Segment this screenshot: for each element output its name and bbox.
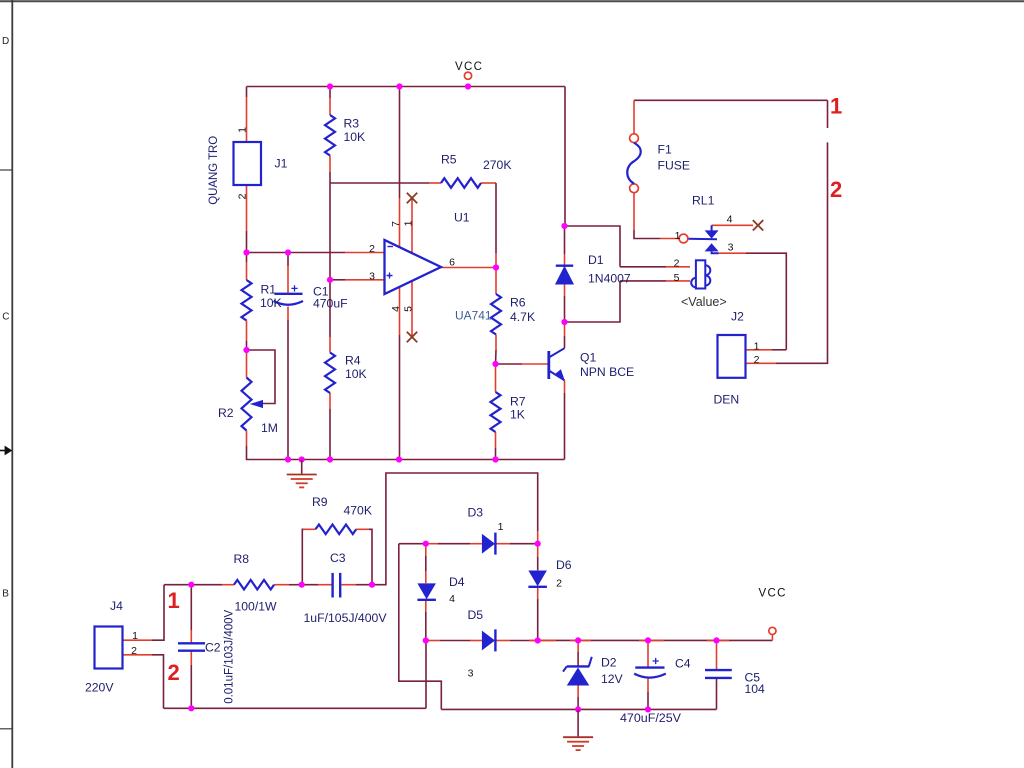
wire D1 anode pin — [564, 284, 566, 296]
svg-text:C3: C3 — [330, 551, 346, 565]
connector J4 — [95, 627, 123, 669]
wire D3 left pin — [470, 543, 482, 545]
wire VCC top rail — [247, 86, 566, 88]
wire C2 to bottom rail — [190, 665, 192, 708]
svg-text:1K: 1K — [510, 408, 525, 422]
wire node to R5 — [330, 182, 429, 184]
wire R3 top stub — [329, 87, 331, 99]
wire R6 bottom pin — [495, 335, 497, 351]
wire D4 column — [425, 556, 427, 571]
svg-text:B: B — [2, 589, 9, 600]
svg-text:1: 1 — [754, 340, 760, 352]
wire R4 top pin — [329, 337, 331, 353]
wire net1 segment — [827, 100, 829, 128]
connector J2 — [718, 335, 746, 378]
svg-text:1: 1 — [498, 521, 504, 533]
svg-text:12V: 12V — [601, 672, 624, 686]
junction C2 top — [188, 582, 194, 588]
connector J1 — [234, 142, 262, 185]
wire C4 top pin — [647, 640, 649, 667]
junction J1-R1-U1 node — [243, 249, 249, 255]
svg-text:5: 5 — [674, 272, 680, 284]
junction VCC rail — [465, 83, 471, 89]
wire R6 top pin — [495, 268, 497, 295]
wire C3 left pin — [318, 584, 332, 586]
svg-text:7: 7 — [390, 221, 402, 227]
wire R8 right pin — [274, 584, 289, 586]
wire R4 to bottom rail — [329, 409, 331, 460]
svg-text:1: 1 — [168, 588, 180, 613]
wire C1 bottom pin — [287, 307, 289, 321]
junction bridge node D — [535, 637, 541, 643]
diode D1 — [556, 266, 573, 284]
wire D1 anode to collector red — [564, 322, 566, 336]
wire U1 pin4 red — [399, 287, 401, 335]
zener diode D2 — [563, 657, 592, 686]
diode D3 — [482, 533, 496, 555]
wire bridge bottom mid — [440, 640, 470, 642]
resistor R6 — [491, 294, 501, 335]
wire relay pin3 red — [719, 252, 746, 254]
wire C1 top pin — [287, 266, 289, 293]
svg-text:2: 2 — [131, 645, 137, 657]
wire D2 to gnd rail — [577, 697, 579, 709]
wire inverting input horizontal — [247, 252, 346, 254]
wire D1 node to cathode — [564, 226, 566, 254]
svg-text:6: 6 — [449, 256, 455, 268]
wire U1 pin6 output — [441, 267, 496, 269]
svg-text:1: 1 — [132, 630, 138, 642]
wire J1 to node inverting — [246, 231, 248, 253]
svg-text:FUSE: FUSE — [658, 159, 691, 173]
svg-text:2: 2 — [674, 257, 680, 269]
fuse F1 bottom terminal — [630, 184, 639, 193]
wire C1 top stub — [287, 253, 289, 267]
svg-text:4: 4 — [390, 306, 402, 312]
junction C4 vcc rail — [645, 637, 651, 643]
wire relay coil pin2 red — [666, 266, 690, 268]
wire gnd step — [399, 544, 442, 710]
frame top border — [0, 0, 1024, 2]
wire U1 pin3 horizontal — [330, 279, 345, 281]
wire J4 pin1 to corner — [152, 585, 164, 641]
wire fuse top pin — [633, 100, 635, 133]
wire J2 pin2 to net2 — [776, 142, 828, 363]
relay RL1 coil — [691, 260, 710, 288]
wire R3 bottom pin — [329, 156, 331, 173]
wire R6 to base node — [495, 350, 498, 364]
wire base node to Q1 — [496, 363, 523, 365]
wire vcc rail red segment d — [707, 639, 729, 641]
op-amp U1 — [385, 240, 442, 294]
svg-text:C4: C4 — [675, 657, 691, 671]
wire J1 pin2 — [246, 185, 248, 231]
wire C3 to corner — [356, 473, 538, 585]
svg-text:0.01uF/103J/400V: 0.01uF/103J/400V — [221, 609, 235, 704]
junction R7 bottom rail — [492, 456, 498, 462]
wire D4 to node — [425, 612, 427, 641]
svg-text:1M: 1M — [261, 421, 278, 435]
capacitor C4 — [634, 658, 666, 678]
wire pin6 node upper stub — [495, 253, 497, 268]
junction bridge node C — [423, 637, 429, 643]
wire fuse to relay pin1 — [634, 230, 660, 239]
svg-text:2: 2 — [830, 177, 842, 202]
svg-text:10K: 10K — [260, 296, 282, 310]
svg-text:470uF: 470uF — [313, 296, 348, 310]
svg-text:VCC: VCC — [759, 588, 787, 600]
svg-text:3: 3 — [468, 667, 474, 679]
junction R4 bottom rail — [327, 456, 333, 462]
wire relay coil pin5 red — [666, 280, 690, 282]
wire C2 bottom pin — [190, 651, 192, 665]
svg-text:D4: D4 — [449, 575, 465, 589]
junction D2 vcc rail — [575, 637, 581, 643]
capacitor C5 — [705, 670, 732, 678]
wire J2 pin1 maroon — [772, 349, 786, 351]
wire U1 pin1 red — [411, 198, 413, 253]
wire R7 to bottom rail — [495, 448, 497, 460]
diode D6 — [528, 571, 547, 587]
junction D1 anode node — [561, 319, 567, 325]
svg-text:1: 1 — [402, 220, 414, 226]
junction C4 gnd rail — [645, 706, 651, 712]
wire emitter to bottom rail — [564, 393, 566, 460]
wire C5 top pin — [716, 640, 718, 670]
svg-text:2: 2 — [556, 578, 562, 590]
wire U1 pin7 from rail — [399, 87, 401, 199]
ground top circuit — [287, 460, 317, 488]
wire D3 to node B — [510, 543, 538, 545]
resistor R7 — [491, 392, 501, 432]
svg-text:C2: C2 — [205, 641, 221, 655]
svg-text:1: 1 — [236, 127, 248, 133]
junction D2 gnd rail — [575, 706, 581, 712]
wire R7 top pin — [495, 364, 497, 392]
wire J1 pin1 stub maroon — [246, 87, 248, 98]
svg-text:VCC: VCC — [455, 61, 483, 73]
wire VCC2 stem — [771, 635, 773, 641]
svg-text:R1: R1 — [261, 283, 277, 297]
junction Q1 base node — [492, 361, 498, 367]
wire D5 to node D — [510, 640, 538, 642]
svg-text:J1: J1 — [275, 157, 288, 171]
svg-text:R3: R3 — [344, 117, 360, 131]
wire D2 top stub — [577, 652, 579, 666]
resistor R3 — [325, 115, 335, 156]
svg-text:R8: R8 — [234, 552, 250, 566]
svg-text:NPN BCE: NPN BCE — [580, 365, 634, 379]
svg-text:D: D — [2, 36, 9, 47]
diode D5 — [482, 629, 496, 651]
svg-text:R6: R6 — [510, 296, 526, 310]
junction C2 bottom — [188, 705, 194, 711]
frame left border — [11, 0, 13, 768]
junction gnd stem rail — [299, 456, 305, 462]
wire D3 right pin — [495, 543, 510, 545]
relay RL1 — [688, 225, 719, 253]
wire R9 left leg — [302, 529, 304, 584]
svg-text:270K: 270K — [483, 158, 511, 172]
svg-text:R4: R4 — [345, 354, 361, 368]
svg-text:D6: D6 — [556, 558, 572, 572]
wire R3 to node — [329, 172, 331, 183]
wire relay pin1 red — [660, 238, 679, 240]
wire D5 left pin — [470, 640, 482, 642]
wire C5 bottom — [716, 678, 718, 710]
svg-text:D1: D1 — [588, 253, 604, 267]
svg-text:U1: U1 — [454, 210, 470, 224]
svg-text:3: 3 — [369, 270, 375, 282]
wire D6 top stub red — [537, 544, 539, 557]
svg-text:3: 3 — [728, 242, 734, 254]
svg-text:470uF/25V: 470uF/25V — [620, 711, 682, 725]
wire pin3 node column — [329, 280, 331, 337]
no-connect U1 pin5 — [407, 332, 417, 342]
svg-text:10K: 10K — [344, 130, 366, 144]
wire collector column — [564, 336, 566, 348]
wire J2 pin1 red — [746, 349, 773, 351]
wire J1 pin1 — [246, 97, 248, 142]
wire C4 to gnd rail — [647, 692, 649, 709]
wire J2 pin2 red — [746, 362, 777, 364]
wire D5 right pin — [495, 640, 510, 642]
wire fuse top rail — [634, 99, 828, 101]
potentiometer R2 — [242, 378, 252, 431]
frame tick upper — [0, 169, 12, 171]
wire R9 left pin — [303, 528, 316, 530]
junction R3 top rail — [327, 83, 333, 89]
no-connect relay pin4 — [753, 220, 763, 230]
junction C5 vcc rail — [713, 637, 719, 643]
svg-text:<Value>: <Value> — [681, 295, 727, 309]
svg-text:100/1W: 100/1W — [235, 600, 277, 614]
junction C1 bottom rail — [285, 456, 291, 462]
wire J4 pin1 red — [123, 639, 153, 641]
wire D2 top pin — [577, 640, 579, 652]
wire bridge B top stub red — [537, 531, 539, 544]
svg-text:QUANG TRO: QUANG TRO — [206, 136, 220, 205]
junction bridge node A — [423, 541, 429, 547]
fuse F1 top terminal — [630, 134, 639, 143]
junction C1 top — [285, 249, 291, 255]
svg-text:2: 2 — [369, 243, 375, 255]
wire R4 bottom pin — [329, 393, 331, 409]
wire ac2 riser — [425, 641, 427, 709]
svg-text:DEN: DEN — [714, 393, 740, 407]
wire C2 top pin — [190, 630, 192, 643]
wire U1 pin5 red — [411, 281, 413, 337]
svg-text:F1: F1 — [658, 143, 672, 157]
svg-text:R7: R7 — [510, 395, 526, 409]
wire J4 pin2 red — [123, 654, 153, 656]
svg-text:2: 2 — [168, 660, 180, 685]
junction R9 right — [369, 582, 375, 588]
no-connect U1 pin1 — [407, 193, 417, 203]
svg-text:2: 2 — [754, 354, 760, 366]
wire D1 loop bottom — [565, 281, 621, 322]
svg-text:Q1: Q1 — [580, 351, 596, 365]
wire ac2 bottom rail — [164, 707, 427, 709]
svg-text:C: C — [2, 312, 9, 323]
svg-text:4: 4 — [727, 213, 733, 225]
svg-text:1: 1 — [830, 94, 842, 119]
wire R5 right pin — [481, 182, 496, 184]
junction bridge node B — [535, 541, 541, 547]
wire R1 top pin — [246, 262, 248, 280]
svg-text:R5: R5 — [441, 153, 457, 167]
wire R5 left pin — [429, 182, 441, 184]
transistor Q1 — [549, 348, 565, 381]
wire R8 to R9 node — [289, 584, 302, 586]
wire R8 left pin — [222, 584, 234, 586]
svg-text:RL1: RL1 — [692, 194, 715, 208]
junction U1 pin4 rail — [396, 456, 402, 462]
junction U1 pin3 node — [327, 277, 333, 283]
wire R3R4 column — [329, 183, 331, 280]
wire U1 pin4 to rail — [399, 335, 401, 460]
wire relay coil pin2 — [620, 266, 666, 268]
capacitor C1 — [274, 285, 304, 304]
capacitor C3 — [333, 573, 341, 598]
diode D4 — [417, 583, 436, 599]
junction U1 output — [493, 264, 499, 270]
wire D2 bottom pin — [577, 686, 579, 698]
wire gnd rail bottom — [441, 708, 716, 710]
wire C3 right pin — [342, 584, 357, 586]
svg-text:1uF/105J/400V: 1uF/105J/400V — [304, 611, 388, 625]
wire R2 wiper loop — [247, 350, 276, 404]
wire R1 to R2 node — [246, 341, 248, 350]
resistor R8 — [234, 580, 274, 590]
svg-text:R9: R9 — [312, 495, 328, 509]
svg-text:104: 104 — [745, 682, 766, 696]
wire VCC rail to D1 node — [564, 87, 566, 227]
wire R9 node to C3 — [302, 584, 318, 586]
svg-text:J2: J2 — [731, 310, 744, 324]
wire bridge top mid — [438, 543, 470, 545]
wire R2 to bottom rail — [247, 446, 565, 460]
svg-text:10K: 10K — [345, 367, 367, 381]
wire relay pin3 to J2 corner — [746, 253, 786, 350]
wire J4 pin2 to corner — [152, 655, 164, 709]
svg-text:R2: R2 — [218, 406, 234, 420]
wire D1 cathode pin — [564, 254, 566, 266]
wire D1 loop top — [565, 226, 621, 267]
VCC top terminal — [464, 72, 471, 79]
wire vcc rail red segment b — [570, 639, 591, 641]
svg-text:2: 2 — [236, 193, 248, 199]
wire U1 pin3 stub — [345, 279, 385, 281]
wire D4 bottom stub — [425, 600, 427, 612]
wire D6 bottom stub — [537, 587, 539, 599]
svg-text:1: 1 — [675, 230, 681, 242]
wire D4 top pin red — [425, 544, 427, 556]
wire D6 to vcc rail — [537, 599, 539, 641]
frame tick lower — [0, 728, 12, 730]
wire bridge top left — [426, 543, 438, 545]
capacitor C2 — [178, 643, 205, 650]
wire R9 right leg — [369, 529, 372, 584]
wire R7 bottom pin — [495, 432, 497, 448]
wire fuse bottom pin — [633, 193, 635, 230]
wire vcc rail red segment c — [639, 639, 664, 641]
wire R5 to pin6 node — [495, 183, 497, 253]
svg-text:D5: D5 — [468, 608, 484, 622]
wire D6 column — [537, 557, 539, 570]
resistor R4 — [325, 353, 335, 394]
svg-text:D2: D2 — [601, 655, 617, 669]
wire ac1 top rail — [164, 584, 222, 586]
svg-text:J4: J4 — [110, 599, 123, 613]
wire U1 pin7 red — [399, 198, 401, 248]
R2 wiper arrow — [252, 401, 263, 408]
ground bottom circuit — [563, 709, 593, 750]
frame arrow marker — [0, 446, 12, 456]
wire R1 bottom pin — [246, 321, 248, 342]
wire R9 right pin — [356, 528, 370, 530]
VCC bottom terminal — [769, 627, 776, 634]
wire C4 bottom pin — [647, 678, 649, 692]
relay RL1 pin1 terminal — [679, 234, 688, 243]
junction U1 pin7 rail — [396, 83, 402, 89]
svg-text:1N4007: 1N4007 — [588, 272, 631, 286]
wire C1 to bottom rail — [287, 320, 289, 460]
wire R2 top pin — [246, 350, 248, 378]
junction R9 left — [299, 582, 305, 588]
wire vcc rail bottom — [538, 639, 773, 641]
resistor R9 — [316, 525, 357, 535]
fuse F1 element — [627, 143, 641, 184]
svg-text:4.7K: 4.7K — [510, 310, 535, 324]
junction R1-R2 node — [243, 347, 249, 353]
wire emitter red stub — [564, 381, 566, 394]
wire relay pin4 — [712, 224, 753, 226]
resistor R1 — [242, 280, 252, 321]
wire C2 top stub — [190, 585, 192, 630]
junction D1 cathode node — [561, 223, 567, 229]
wire Q1 base stub — [522, 363, 548, 365]
wire node A to step — [399, 543, 426, 545]
svg-text:4: 4 — [449, 593, 455, 605]
wire R2 bottom pin — [246, 431, 248, 447]
wire vcc rail red segment a — [529, 639, 556, 641]
wire bridge bottom left red — [426, 640, 440, 642]
svg-text:D3: D3 — [468, 506, 484, 520]
svg-text:5: 5 — [403, 306, 415, 312]
wire D1 anode to node — [564, 296, 566, 322]
wire R1 top stub — [246, 253, 248, 263]
wire relay coil pin5 — [620, 280, 666, 282]
svg-text:470K: 470K — [344, 504, 372, 518]
wire U1 pin2 stub — [345, 252, 385, 254]
svg-text:UA741: UA741 — [455, 309, 492, 323]
wire D4 top stub — [425, 571, 427, 583]
resistor R5 — [441, 178, 481, 188]
wire R3 top pin — [329, 98, 331, 115]
svg-text:220V: 220V — [85, 681, 114, 695]
